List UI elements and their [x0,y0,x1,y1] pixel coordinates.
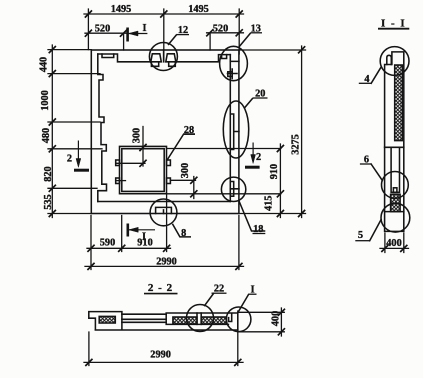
svg-text:910: 910 [137,238,152,249]
underline 18 [253,233,266,235]
2-2 right block [166,313,238,330]
bottom edge extension to 3275 [239,213,306,215]
left wall inner face with keys [98,54,107,202]
top edge extension to 3275 [239,49,306,51]
top wall joint centerline [163,50,165,62]
leader 4 [371,67,381,83]
detail circle 22 [187,305,214,332]
detail circle 8 [150,199,177,226]
underline 20 [253,97,268,99]
svg-text:415: 415 [264,196,275,211]
svg-text:535: 535 [43,194,54,209]
leader 8 [172,224,191,237]
leader 6 [371,164,382,180]
2-2 hatch block left [99,316,115,323]
svg-text:300: 300 [132,128,143,143]
square tab left upper [116,160,120,166]
2-2 2990 dimension [84,361,243,363]
extensions for plan 2990 [91,216,239,270]
section marker 1 bottom [128,224,155,237]
2-2 bottom line [95,329,237,331]
underline 5 [355,240,369,242]
svg-text:2: 2 [67,153,72,164]
left dimension chain line [51,45,53,218]
underline 22 [212,292,227,294]
svg-text:590: 590 [100,238,115,249]
section marker 2 right [245,143,260,168]
right 910-415 dimension line [279,144,281,218]
section marker 2 left [74,141,89,171]
top wall small tab a [151,62,158,67]
svg-text:1495: 1495 [111,4,132,15]
top extension lines [88,9,239,62]
svg-text:1495: 1495 [188,4,209,15]
section marker 1 top [128,28,148,42]
I-I 400 dimension [385,233,404,253]
left extension lines [48,50,102,214]
svg-text:520: 520 [213,24,228,35]
detail circle 18 [221,177,245,201]
detail circle 1 [226,307,251,332]
svg-text:3275: 3275 [290,134,301,155]
300 vertical dimension at square [142,127,144,167]
I-I joint notch [393,188,397,193]
underline 28 [184,133,196,135]
svg-text:8: 8 [181,228,186,239]
extension from 520 tick to wall [123,34,125,50]
detail circle 20 [223,101,248,158]
underline 6 [360,163,371,165]
I-I top lug [387,55,392,64]
bottom wall inner face [98,201,231,203]
I-I mid joint line [385,146,404,148]
right wall inner face [229,55,231,202]
2-2 left end block [89,312,122,330]
svg-text:480: 480 [41,128,52,143]
top wall key tab left [102,54,114,58]
square tab right upper [167,160,171,166]
detail circle 13 [220,46,248,80]
top dimension line 1495+1495 [84,13,244,15]
leader 20 [244,98,253,109]
leader 13 [239,33,251,48]
leader 18 [239,201,265,232]
detail circle 4 [380,47,409,76]
leader 1 [239,295,249,312]
I-I joint strip [391,147,399,192]
square lower tab centreline stub [117,180,126,182]
underline title I-I [378,28,409,30]
svg-text:300: 300 [180,163,191,178]
svg-text:440: 440 [39,57,50,72]
bottom 590-910 dimension line [87,247,171,249]
leader 28 [167,134,195,161]
underline 12 [177,34,189,36]
I-I lower hatch block [391,194,401,211]
svg-text:I: I [142,23,146,34]
detail circle 6 [382,172,409,199]
top wall joint key B [166,54,176,62]
I-I column outline [385,52,404,232]
corner joint cross (detail 13) [228,61,239,78]
2-2 middle web lines [122,314,166,322]
underline 4 [359,82,371,84]
leader 12 [168,34,177,45]
top wall small tab b [169,62,176,67]
2-2 joint divider [197,313,201,324]
svg-text:I - I: I - I [381,17,406,29]
corner joint box (detail 13) [228,72,232,77]
2-2 hatch block middle [173,317,197,324]
extension from right 520 tick to wall [209,34,211,51]
svg-text:5: 5 [358,230,363,241]
plan outer wall outline [91,50,239,214]
leader 5 [370,220,381,241]
square inner tie line [117,162,145,164]
bottom wall key tab (detail 8) [156,207,172,213]
svg-text:910: 910 [269,164,280,179]
svg-text:2990: 2990 [150,350,171,361]
I-I upper hatch strip [395,65,403,141]
centre square opening outer [120,146,167,193]
2-2 hatch block right [201,317,226,324]
top wall inner face with keys [98,54,231,62]
leader 22 [205,294,214,306]
underline 13 [251,32,262,34]
top second dimension line 520 right [207,32,244,34]
300 right dimension at square [170,177,195,199]
svg-text:2: 2 [256,152,261,163]
svg-text:400: 400 [270,311,281,326]
square tab left lower [116,178,120,184]
square bottom edge extension to 910 dim [167,193,281,195]
bottom key notch [163,210,165,214]
svg-text:520: 520 [95,24,110,35]
detail circle 12 [149,43,177,71]
svg-text:1000: 1000 [40,90,51,111]
top wall joint key A [151,54,162,62]
detail circle 5 [381,203,410,232]
right wall joint at detail 20 [230,114,239,150]
square top edge extension to 910 dim [167,148,281,150]
svg-text:2990: 2990 [156,257,177,268]
I-I lower joint line [385,211,404,213]
svg-text:2 - 2: 2 - 2 [148,282,173,294]
right wall joint at detail 18 [230,182,239,197]
extensions for 590-910 [122,195,167,252]
left chain ticks [49,47,55,217]
svg-text:820: 820 [43,166,54,181]
underline 1 [249,293,257,295]
centre square opening inner [122,149,164,192]
underline title 2-2 [144,293,178,295]
top wall corner tab right [222,55,227,59]
plan 2990 dimension line [85,265,244,267]
svg-text:400: 400 [386,238,401,249]
2-2 400 dimension [238,312,284,332]
3275 dimension line [301,46,303,218]
square tab right lower [167,178,171,184]
top second dimension line 520 left [85,32,126,34]
